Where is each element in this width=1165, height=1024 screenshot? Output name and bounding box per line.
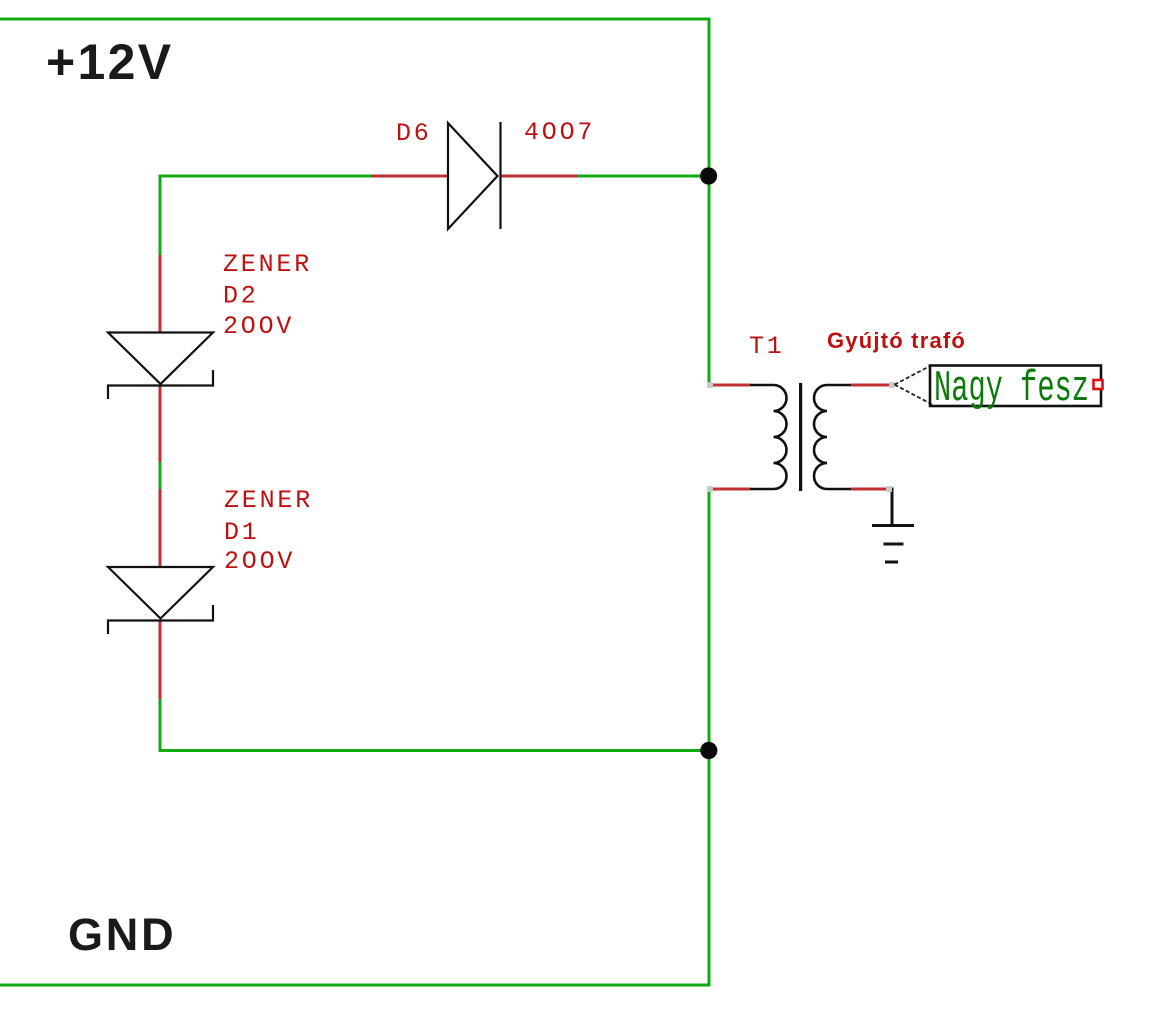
svg-text:T1: T1: [749, 332, 785, 361]
svg-text:Nagy fesz: Nagy fesz: [934, 364, 1089, 414]
svg-text:+12V: +12V: [46, 34, 173, 90]
svg-text:2OOV: 2OOV: [224, 547, 295, 576]
svg-text:ZENER: ZENER: [223, 250, 312, 279]
svg-text:D2: D2: [223, 282, 259, 311]
svg-text:GND: GND: [68, 909, 176, 960]
svg-text:4OO7: 4OO7: [524, 118, 595, 147]
svg-text:Gyújtó trafó: Gyújtó trafó: [827, 328, 966, 353]
svg-text:D1: D1: [224, 518, 260, 547]
svg-text:ZENER: ZENER: [224, 486, 313, 515]
svg-text:2OOV: 2OOV: [223, 312, 294, 341]
svg-text:D6: D6: [396, 119, 432, 148]
